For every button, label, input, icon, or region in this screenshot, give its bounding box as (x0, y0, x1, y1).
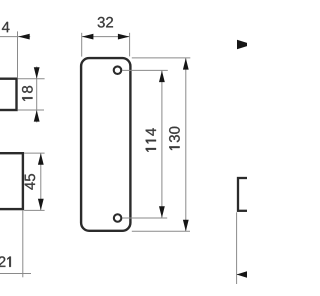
dim 130: label (rotated) (169, 127, 180, 150)
dim 21: dimension line (0, 273, 31, 275)
dim 114: dimension line (161, 70, 163, 218)
dim 18: label (rotated) (22, 86, 33, 101)
dim 21: label (cropped at left) (0, 256, 11, 266)
dim 18: arrowhead pointing up (34, 110, 40, 122)
dim 45: arrowhead pointing up (38, 153, 44, 165)
dim 18: top extension line (18, 78, 45, 80)
dim 45: arrowhead pointing down (38, 199, 44, 211)
dim 32: label (98, 17, 113, 28)
dim 32: arrowhead pointing left (82, 34, 94, 40)
right view body (cropped at right edge) (238, 178, 252, 211)
view direction arrow (cropped at right edge) (237, 40, 252, 50)
dim 32: right extension line (129, 33, 131, 57)
dim 130: dimension line (185, 58, 187, 231)
hole bottom (114, 214, 122, 222)
dim 130: arrowhead pointing down (183, 220, 189, 232)
dim 114: label (rotated) (146, 128, 156, 151)
dim 114: bottom extension line (122, 217, 167, 219)
dim 18: bottom extension line (18, 109, 44, 111)
dim 130: bottom extension line (132, 230, 190, 232)
dim 32: dimension line (82, 36, 130, 38)
dim 114: top extension line (122, 69, 168, 71)
dim 45: bottom extension line (24, 209, 44, 211)
right dim: dimension line stub (237, 274, 248, 276)
dim 32: arrowhead pointing right (118, 34, 129, 40)
dim 21: extension line vertical (22, 210, 24, 277)
right dim: extension line vertical (236, 212, 238, 284)
dim 4: dimension line (0, 36, 30, 38)
dim 114: arrowhead pointing down (159, 206, 165, 218)
dim 45: top extension line (24, 152, 44, 154)
dim 45: label (rotated) (25, 174, 35, 190)
dim 4: arrowhead pointing left (18, 34, 30, 40)
dim 114: arrowhead pointing up (159, 71, 165, 83)
hole top (114, 66, 122, 74)
right dim: arrowhead pointing left (237, 271, 249, 278)
dim 18: dimension line (36, 67, 38, 123)
dim 4: label (2, 22, 10, 32)
left view body lower (cropped at left edge) (0, 153, 23, 209)
dim 18: arrowhead pointing down (34, 67, 40, 79)
dim 45: dimension line (40, 153, 42, 210)
dim 130: top extension line (132, 57, 191, 59)
plate outline (rounded rectangle) (81, 58, 130, 231)
left view body upper (cropped at left edge) (0, 79, 17, 110)
dim 130: arrowhead pointing up (183, 58, 189, 70)
dim 4: extension line (17, 31, 19, 77)
dim 32: left extension line (81, 33, 83, 57)
